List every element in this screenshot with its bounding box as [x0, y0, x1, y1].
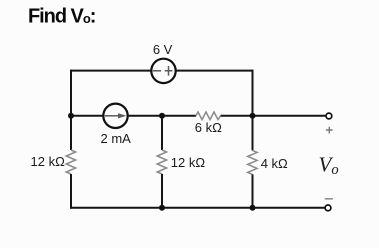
svg-text:2 mA: 2 mA	[101, 131, 132, 146]
svg-text:6 kΩ: 6 kΩ	[195, 120, 222, 135]
svg-text:4 kΩ: 4 kΩ	[261, 156, 288, 171]
plus sign of 6V source	[165, 66, 173, 76]
plus label at terminal	[326, 127, 333, 134]
wire middle vertical upper	[161, 116, 163, 150]
resistor R1 12k left zigzag	[66, 150, 75, 174]
terminal top (open circle)	[326, 113, 332, 119]
svg-text:12 kΩ: 12 kΩ	[171, 155, 206, 170]
junction node C (middle wire / right branch)	[250, 113, 256, 119]
voltage source V1 6V	[151, 59, 175, 83]
wire right vertical upper	[252, 70, 254, 151]
wire top-right horizontal (6V source to right corner)	[176, 70, 254, 72]
wire middle horizontal left (node to 2mA source)	[71, 115, 103, 117]
arrow of 2mA source	[105, 115, 120, 117]
svg-text:Find Vo:: Find Vo:	[28, 5, 95, 27]
resistor R4 4k zigzag	[248, 150, 257, 174]
resistor R2 6k zigzag	[196, 112, 221, 120]
junction node E (bottom / right branch)	[250, 205, 256, 211]
wire middle vertical lower	[161, 174, 163, 208]
wire bottom horizontal	[70, 207, 325, 209]
wire top-left horizontal (to 6V source)	[71, 70, 151, 72]
svg-text:12 kΩ: 12 kΩ	[31, 154, 66, 169]
junction node B (middle wire / middle branch)	[159, 113, 165, 119]
wire middle horizontal (2mA to 6k resistor)	[128, 115, 196, 117]
junction node D (bottom / middle branch)	[159, 205, 165, 211]
junction node A (left, middle wire)	[68, 113, 74, 119]
svg-text:6 V: 6 V	[153, 42, 173, 57]
wire middle horizontal right (6k to top terminal)	[221, 115, 326, 117]
resistor R3 12k middle zigzag	[157, 150, 166, 174]
current source I1 2mA	[103, 104, 127, 128]
terminal bottom (open circle)	[325, 205, 331, 211]
minus sign of 6V source	[153, 70, 161, 72]
wire left vertical upper	[70, 70, 72, 150]
wire left vertical lower	[70, 174, 72, 209]
minus label at terminal	[325, 198, 333, 200]
svg-text:Vo: Vo	[319, 152, 339, 178]
wire right vertical lower	[252, 174, 254, 207]
